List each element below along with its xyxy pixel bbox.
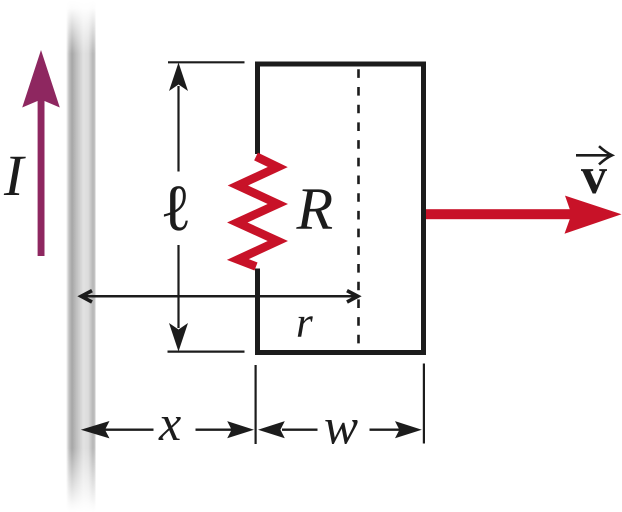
dashed line (radius reference) [357, 67, 360, 351]
dimension x right arrowhead [227, 421, 254, 438]
dimension r line [81, 295, 358, 298]
dimension r left chevron [81, 291, 92, 302]
dimension l bottom tick [168, 351, 245, 353]
loop rectangle (conducting loop) [258, 64, 424, 353]
dimension w left arrowhead [258, 421, 285, 438]
dimension r right chevron [347, 291, 358, 302]
current arrow I [22, 50, 60, 256]
dimension w line right [370, 429, 413, 431]
svg-text:I: I [3, 143, 26, 208]
dimension l down arrowhead [169, 323, 188, 352]
tick at loop left edge [255, 365, 257, 444]
svg-text:ℓ: ℓ [160, 172, 192, 245]
wire (long straight current-carrying wire) [66, 0, 96, 512]
dimension x left arrowhead [81, 421, 110, 438]
tick at loop right edge [423, 364, 425, 444]
dimension l line [177, 86, 179, 328]
resistor R [237, 157, 277, 267]
dimension w line left [282, 429, 318, 431]
dimension x line left [98, 429, 154, 431]
svg-text:x: x [158, 395, 181, 451]
dimension l top tick [168, 61, 245, 63]
dimension w right arrowhead [395, 421, 422, 438]
velocity arrow v [426, 196, 622, 234]
dimension l up arrowhead [169, 63, 188, 92]
vector arrow over v [576, 146, 612, 164]
svg-text:r: r [296, 300, 313, 347]
dimension x line right [196, 429, 243, 431]
svg-text:w: w [324, 400, 358, 456]
svg-text:R: R [296, 176, 334, 242]
